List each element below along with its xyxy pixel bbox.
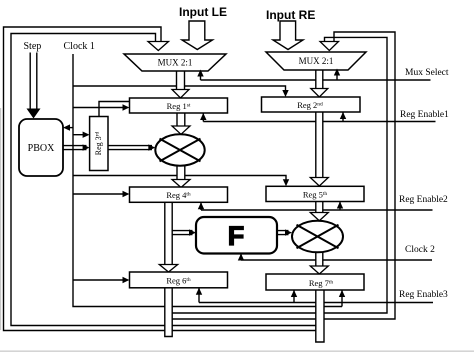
- scan artifact bottom edge: [0, 350, 474, 352]
- wire clock branch to Reg 5th top: [73, 176, 286, 183]
- arrowhead into XOR2 left (F output): [285, 229, 292, 235]
- arrowhead into Reg 1st left (clock): [123, 104, 130, 110]
- svg-text:Clock 1: Clock 1: [64, 41, 95, 52]
- svg-text:PBOX: PBOX: [28, 143, 55, 154]
- wire Reg Enable2 line: [201, 202, 433, 211]
- wire right feedback loop inner: [172, 37, 387, 313]
- arrow Input LE (hollow): [182, 21, 213, 50]
- arrowhead into Reg 2nd bottom (enable1): [340, 112, 346, 119]
- wire PBOX to Reg 3rd bus: [63, 146, 87, 150]
- svg-text:MUX 2:1: MUX 2:1: [158, 58, 193, 68]
- arrow Step (solid head): [27, 109, 41, 119]
- svg-text:F: F: [228, 221, 245, 251]
- arrowhead into PBOX right (clock): [63, 124, 70, 130]
- svg-text:Mux Select: Mux Select: [405, 68, 449, 78]
- arrowhead into Reg 4th bottom (enable2): [198, 202, 204, 209]
- register Reg 3rd (vertical): [90, 117, 108, 171]
- register Reg 5th: [266, 186, 364, 201]
- register Reg 2nd: [262, 97, 361, 112]
- xor-gate XOR1: [155, 134, 204, 165]
- arrowhead into Reg 3rd left (pbox bus): [83, 144, 90, 150]
- svg-text:Input RE: Input RE: [266, 8, 315, 22]
- bus Reg 6th output (down through frame): [165, 288, 172, 337]
- arrowhead into Reg 7th bottom (enable3): [291, 290, 297, 297]
- arrowhead into Reg 2nd top (clock): [282, 90, 288, 97]
- mux MUX1 (MUX 2:1 left): [124, 54, 226, 71]
- wire clock branch to Reg 4th left: [73, 193, 126, 195]
- xor-gate XOR2: [292, 221, 343, 253]
- bus Reg 5th output to XOR2: [310, 202, 328, 221]
- bus Reg 4th output to Reg 6th: [159, 202, 177, 272]
- register Reg 1st: [130, 98, 228, 113]
- wire clock branch to Reg 2nd top: [73, 86, 286, 93]
- wire Mux Select line: [201, 70, 431, 80]
- svg-text:Input LE: Input LE: [179, 5, 227, 19]
- arrowhead into Reg 6th bottom (enable3): [196, 288, 202, 295]
- bus MUX2 output to Reg 2nd: [311, 69, 328, 97]
- bus Reg 1st output to XOR1: [172, 113, 190, 134]
- arrowhead into Reg 7th bottom (clock): [339, 290, 345, 297]
- wire clock branch to Reg 6th left: [73, 279, 126, 281]
- svg-text:Clock 2: Clock 2: [405, 245, 435, 255]
- arrowhead into Reg 5th top (clock): [283, 179, 289, 186]
- block F function: [196, 217, 277, 254]
- wire left feedback loop outer: [4, 27, 316, 331]
- svg-text:Reg Enable1: Reg Enable1: [400, 110, 449, 120]
- arrowhead into Reg 1st bottom (enable1): [200, 113, 206, 120]
- bus Reg 2nd output to Reg 5th: [310, 112, 328, 186]
- svg-text:Reg Enable3: Reg Enable3: [399, 290, 448, 300]
- register Reg 6th: [130, 272, 228, 288]
- scan artifact left edge: [0, 108, 1, 330]
- block PBOX: [19, 119, 63, 176]
- bus XOR1 output to Reg 4th: [172, 166, 190, 188]
- wire Reg Enable1 line: [203, 112, 435, 122]
- wire left feedback loop inner: [11, 34, 316, 326]
- svg-text:MUX 2:1: MUX 2:1: [299, 56, 334, 66]
- arrowhead into MUX1 bottom (mux select): [197, 70, 203, 77]
- bus XOR2 output to Reg 7th: [310, 253, 328, 275]
- arrowhead into Reg 3rd left (clock): [83, 132, 90, 138]
- arrowhead into Reg 6th left (clock): [123, 277, 130, 283]
- mux MUX2 (MUX 2:1 right): [266, 52, 366, 70]
- svg-text:Reg Enable2: Reg Enable2: [399, 195, 448, 205]
- wire Reg 3rd to XOR1 bus: [108, 146, 152, 150]
- svg-text:Step: Step: [24, 41, 42, 52]
- arrowhead into F bottom (clock2): [238, 254, 244, 261]
- arrowhead into Reg 4th left (clock): [123, 191, 130, 197]
- wire F to XOR2: [277, 231, 289, 235]
- bus MUX1 output to Reg 1st: [172, 70, 189, 98]
- arrowhead into F left (reg4 branch): [189, 229, 196, 235]
- wire Reg 1st left to Reg 3rd top: [99, 102, 130, 117]
- wire Clock 2 line: [241, 254, 432, 261]
- wire Reg 4th bus branch to F: [170, 231, 193, 235]
- bus Reg 7th output (down through frame): [316, 290, 324, 342]
- arrow left loop into MUX1 (hollow head): [148, 42, 169, 51]
- arrow right loop into MUX2 (hollow head): [320, 42, 339, 51]
- wire Clock 1 vertical and bottom run: [73, 54, 342, 307]
- arrowhead into Reg 5th bottom (enable2): [337, 202, 343, 209]
- wire clock branch to Reg 3rd left: [73, 134, 86, 136]
- register Reg 7th: [266, 274, 364, 290]
- wire clock branch to Reg 1st left: [73, 107, 126, 109]
- wire clock branch to PBOX right: [66, 127, 73, 129]
- wire right feedback loop outer: [165, 32, 395, 319]
- arrow Step (shaft): [30, 53, 37, 109]
- wire Reg Enable3 line: [199, 288, 433, 303]
- register Reg 4th: [130, 187, 228, 202]
- arrow Input RE (hollow): [273, 21, 303, 50]
- arrowhead into XOR1 left (reg3 bus): [148, 144, 155, 150]
- arrowhead into MUX2 bottom (mux select): [334, 69, 340, 76]
